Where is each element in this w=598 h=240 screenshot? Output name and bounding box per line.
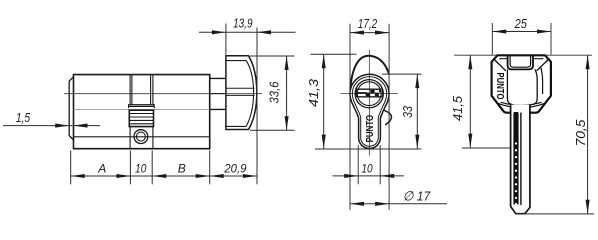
svg-text:PUNTO: PUNTO (494, 73, 506, 100)
svg-text:41,3: 41,3 (307, 79, 321, 107)
blade groove dark band (513, 112, 518, 205)
plug inner circle (357, 82, 381, 106)
key head top tab inner (510, 56, 530, 68)
key head outline (492, 55, 551, 112)
body highlight line upper (74, 109, 210, 111)
key head top inner line right (533, 58, 543, 60)
knob inner top line (226, 60, 246, 62)
dimension 41,5 line (469, 55, 471, 147)
lower cam verticals (130, 127, 153, 149)
dimension 17,2 line (350, 32, 389, 34)
key blade (511, 105, 530, 214)
svg-text:1,5: 1,5 (16, 110, 31, 125)
svg-text:25: 25 (514, 16, 528, 31)
key head bottom arc (501, 102, 542, 105)
dimension 1,5 line (3, 125, 100, 127)
extension line body end (209, 151, 211, 185)
face outer contour (350, 74, 389, 148)
ladder rungs (129, 114, 153, 124)
knob grip line lower (226, 94, 255, 96)
screw head outer circle (134, 130, 148, 144)
key head grip curve left (507, 69, 513, 104)
svg-text:17,2: 17,2 (358, 16, 378, 31)
dimension 33 extension top (382, 73, 422, 75)
key head grip curve far right (541, 67, 543, 95)
dimension 41,3 extension top (311, 53, 357, 55)
blade dimple dots (white) (515, 142, 517, 205)
dimension 33,6 extension top (250, 55, 295, 57)
dimension 41,5 extension bottom (462, 147, 510, 149)
svg-text:41,5: 41,5 (451, 96, 465, 121)
dimension 17,2 extensions (shared with diam 17) (350, 24, 389, 210)
shared extension line at knob tangent (256, 28, 258, 185)
axis centerline (64, 93, 262, 95)
cam channel right pair (151, 75, 153, 105)
extension line cam left (129, 151, 131, 185)
clip ladder block (129, 110, 153, 126)
bottom dimension chain line (71, 175, 257, 177)
knob grip line upper (226, 87, 255, 89)
keyhole slot outline (356, 89, 382, 97)
dimension 33 arrows (415, 74, 419, 149)
keyhole ward pattern (358, 92, 367, 94)
cylinder body outline (74, 75, 210, 149)
svg-text:∅ 17: ∅ 17 (403, 188, 431, 203)
key head grip curve right (532, 69, 538, 104)
vertical centerline (368, 50, 370, 156)
dimension 70,5 extension bottom (516, 213, 594, 215)
cam channel left pair (130, 75, 132, 105)
dimension 17,2 arrows (350, 31, 389, 35)
dimension 33,6 extension bottom (250, 129, 295, 131)
dimension 70,5 line (587, 55, 589, 214)
svg-text:33,6: 33,6 (268, 81, 282, 103)
dimension 70,5 arrows (586, 55, 590, 214)
dimension 41,3 arrows (322, 54, 326, 148)
screw head inner circle (136, 132, 145, 141)
key head corner line left (494, 60, 506, 71)
key head bottom arc outer (498, 103, 546, 108)
thumbturn knob outline (226, 56, 257, 130)
dimension 1,5 arrows (55, 124, 87, 128)
svg-text:20,9: 20,9 (223, 162, 246, 176)
dimension 13,9 arrows (212, 30, 271, 34)
dimension diameter 17 arrows (350, 202, 389, 206)
chain arrows (71, 174, 257, 178)
dimension 10 (middle) arrows (344, 174, 394, 178)
thumbturn wing dome (behind face, top) (350, 56, 389, 89)
dimension diameter 17 line (350, 203, 447, 205)
svg-text:PUNTO: PUNTO (364, 115, 376, 143)
dimension 25 line (492, 31, 551, 33)
dimension 10 (middle) line (333, 175, 405, 177)
svg-text:10: 10 (135, 162, 147, 176)
dimension 25 arrows (492, 29, 551, 33)
dimension 10 (middle) extensions (358, 145, 380, 184)
shared bottom extension (41,3 and 33) (315, 148, 422, 150)
key head corner line right (537, 60, 549, 71)
svg-text:70,5: 70,5 (574, 119, 588, 146)
svg-text:33: 33 (401, 106, 415, 118)
knob inner bottom line (226, 125, 246, 127)
body fin line lower (74, 136, 210, 138)
dimension 41,5 arrows (468, 55, 472, 147)
svg-text:A: A (97, 162, 106, 176)
extension line cam right (151, 151, 153, 185)
plug face (left end) (69, 77, 73, 140)
face inner contour (352, 77, 386, 147)
knob inner rim curve (246, 61, 253, 127)
dimension 25 extensions (492, 23, 551, 55)
cam staple lines (129, 105, 155, 109)
dimension 41,3 line (323, 54, 325, 148)
svg-text:10: 10 (361, 161, 373, 175)
neck between body and knob (210, 78, 226, 109)
dimension 13,9 line (199, 31, 296, 33)
thumbturn wing tab (right side) (384, 110, 391, 125)
dimension 33,6 arrows (285, 56, 289, 130)
extension line body left face (70, 151, 72, 185)
dimension 33 line (416, 74, 418, 149)
key head top inner line left (499, 58, 507, 60)
horizontal centerline (341, 93, 399, 95)
svg-text:13,9: 13,9 (233, 16, 253, 31)
shared top extension line (454, 54, 592, 56)
dimension 13,9 extension left (225, 24, 227, 55)
plug outer circle (355, 80, 383, 108)
key head top tab outer (508, 56, 533, 70)
svg-text:B: B (178, 162, 186, 176)
blade groove line right (520, 113, 522, 206)
dimension 33,6 line (286, 56, 288, 130)
neck mid line (210, 93, 226, 95)
